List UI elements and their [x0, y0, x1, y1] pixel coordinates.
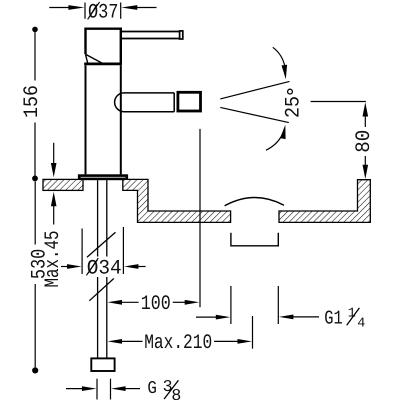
left counter hatched block	[43, 179, 83, 190]
faucet handle bar	[121, 32, 180, 39]
pipe break diagonal lower	[89, 279, 114, 301]
dim 80 vertical line	[364, 116, 366, 167]
dim G1 1/4 left arrowhead	[216, 315, 231, 320]
drain left extension line	[230, 286, 232, 324]
dim D34 left line	[61, 266, 68, 268]
dim D37 left arrowhead	[68, 5, 84, 10]
basin right hatched section with wall	[279, 180, 370, 223]
dim 100 left line	[121, 301, 139, 303]
dim 530 line	[34, 181, 36, 367]
svg-text:25: 25	[283, 96, 306, 118]
dim D37 left line	[49, 7, 69, 9]
dim D34 right arrowhead	[124, 264, 138, 269]
aerator extension line	[199, 129, 201, 307]
drain centre extension line	[252, 316, 254, 349]
dim D37 right arrowhead	[121, 5, 137, 10]
dim G 3/8 fraction slash	[164, 380, 178, 399]
pipe break diagonal upper	[87, 232, 116, 257]
dim Max.210 left line	[121, 340, 143, 342]
base flange	[79, 176, 127, 179]
dim Max.210 right arrowhead	[238, 339, 253, 344]
dim G 3/8 right arrowhead	[111, 386, 126, 391]
dim 25 upper arc	[273, 47, 285, 67]
dim 80 down arrowhead	[363, 165, 369, 179]
dim G 3/8 right tick	[110, 379, 112, 400]
svg-text:80: 80	[353, 130, 376, 153]
svg-text:8: 8	[171, 386, 181, 400]
dim 530 bottom dot	[32, 367, 38, 373]
dim D34 right tick	[122, 227, 124, 274]
dim D34 left arrowhead	[67, 264, 82, 269]
dim 100 right line	[173, 301, 186, 303]
dim 80 horizontal line	[311, 101, 366, 103]
drain plug dome arc	[225, 197, 284, 205]
dim 25 lower arc	[266, 132, 284, 151]
svg-text:4: 4	[357, 316, 365, 331]
dim Max.45 down arrowhead	[51, 163, 57, 177]
dim G1 1/4 right arrowhead	[279, 315, 294, 320]
dim Max.45 up arrowhead	[51, 192, 57, 206]
faucet head outline	[86, 29, 121, 64]
svg-text:530: 530	[29, 249, 52, 280]
dim Max.45 lower line	[53, 206, 55, 225]
dim 25 lower arc arrowhead	[280, 125, 286, 139]
supply pipe left	[97, 180, 99, 358]
spray lower line	[220, 107, 288, 122]
nut	[91, 358, 114, 371]
dim Max.210 right line	[214, 340, 239, 342]
dim D37 right line	[137, 7, 157, 9]
dim D34 right line	[138, 266, 146, 268]
svg-text:Ø34: Ø34	[87, 257, 122, 280]
dim D37 right tick	[120, 3, 122, 19]
dim 80 up arrowhead	[363, 102, 369, 116]
svg-text:156: 156	[21, 85, 44, 118]
dim G1 1/4 left line	[196, 316, 217, 318]
dim Max.210 left arrowhead	[108, 339, 123, 344]
svg-text:G: G	[147, 379, 157, 399]
dim G 3/8 left arrowhead	[82, 386, 97, 391]
spout	[115, 93, 175, 112]
basin left hatched section	[123, 179, 231, 222]
dim 25 upper arc arrowhead	[282, 65, 288, 80]
dim 156 line	[34, 29, 36, 178]
dim G1 1/4 right line	[293, 316, 319, 318]
dim 156/530 shared dot	[32, 176, 38, 182]
drain right extension line	[277, 286, 279, 324]
dim G1 1/4 fraction slash	[347, 308, 360, 325]
dim 156 top dot	[32, 27, 38, 33]
aerator	[178, 92, 201, 111]
dim D34 left tick	[81, 229, 83, 275]
supply pipe right	[106, 180, 108, 358]
svg-text:G1: G1	[324, 307, 343, 329]
svg-text:Max.210: Max.210	[144, 332, 212, 355]
dim Max.45 upper line	[53, 143, 55, 164]
dim D37 left tick	[84, 3, 86, 19]
dim D37 diameter slash overshoot	[88, 2, 100, 20]
dim 25 degree ring	[288, 89, 293, 94]
svg-text:100: 100	[141, 293, 171, 316]
dim G 3/8 left tick	[96, 379, 98, 400]
dim G 3/8 right line	[125, 388, 140, 390]
drain tailpiece	[231, 233, 278, 246]
faucet handle end cap	[180, 31, 183, 39]
dim 100 right arrowhead	[185, 300, 200, 305]
faucet body sides	[86, 65, 121, 174]
dim D34 diameter slash overshoot	[86, 258, 98, 276]
dim G 3/8 left line	[66, 388, 83, 390]
faucet head diagonal parting line	[86, 54, 102, 63]
spray upper line	[220, 81, 289, 99]
faucet head bottom thick line	[84, 63, 122, 66]
dim 100 left arrowhead	[108, 300, 123, 305]
